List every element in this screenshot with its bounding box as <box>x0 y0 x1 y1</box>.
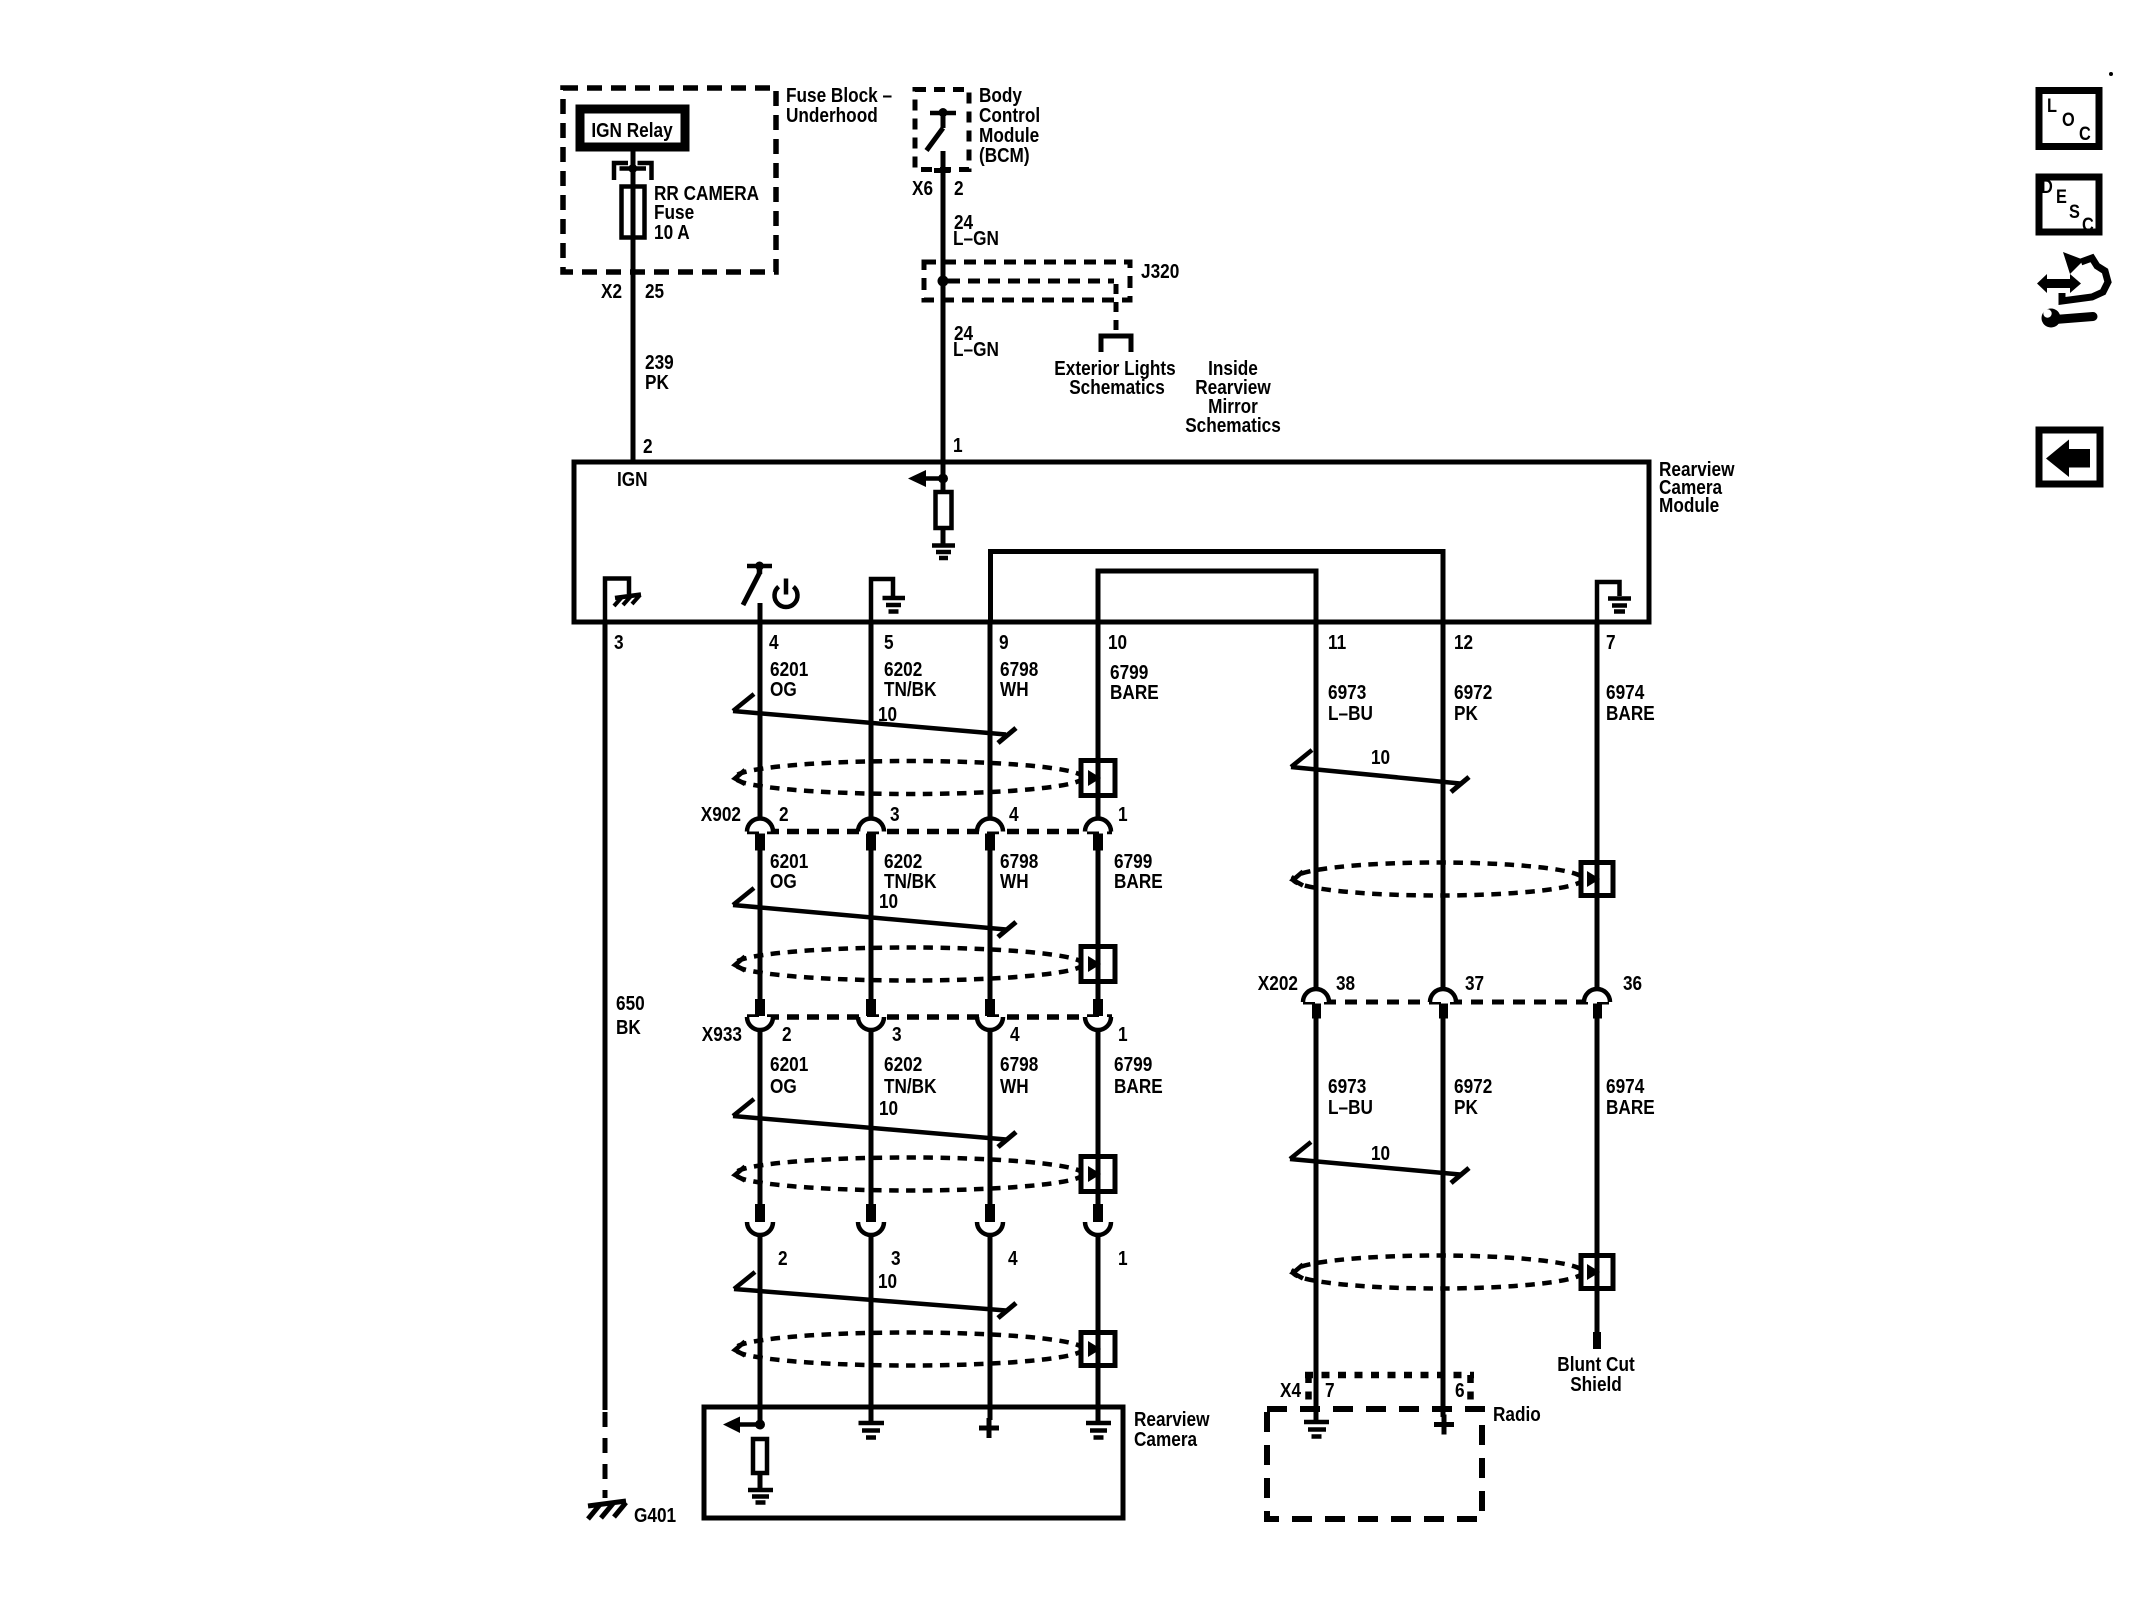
camera connector pin 4 terminal arc <box>977 1222 1003 1235</box>
Rearview Camera Module box U1 <box>574 462 1649 622</box>
svg-text:6798: 6798 <box>1000 659 1038 681</box>
shield termination box A <box>1581 862 1613 896</box>
module pin7 internal ground <box>1597 582 1631 622</box>
camera connector pin 2 stub <box>755 1204 765 1222</box>
svg-text:6202: 6202 <box>884 659 922 681</box>
dashed drop to exterior lights <box>1114 284 1119 332</box>
connector X202 pin 36 stub <box>1593 1004 1602 1019</box>
wire 650 BK from pin3 to G401 <box>603 622 608 1410</box>
svg-text:PK: PK <box>645 372 669 394</box>
wire BCM to module pin 1 <box>941 151 946 462</box>
svg-text:239: 239 <box>645 352 674 374</box>
svg-text:6201: 6201 <box>770 1054 808 1076</box>
ground in camera pin3 <box>859 1423 885 1438</box>
sidebar icon back arrow box <box>2039 430 2100 484</box>
twisted leads marker 3 <box>733 1098 1016 1147</box>
svg-text:BARE: BARE <box>1114 1076 1163 1098</box>
svg-text:WH: WH <box>1000 1076 1029 1098</box>
svg-text:Schematics: Schematics <box>1069 377 1165 399</box>
twisted leads marker 1 <box>733 694 1016 743</box>
svg-text:10: 10 <box>1371 747 1390 769</box>
svg-text:6973: 6973 <box>1328 682 1366 704</box>
svg-text:6799: 6799 <box>1114 851 1152 873</box>
svg-text:D: D <box>2041 177 2053 198</box>
svg-text:TN/BK: TN/BK <box>884 871 937 893</box>
relay K: IGN Relay box <box>580 109 685 147</box>
svg-text:10 A: 10 A <box>654 222 690 244</box>
twisted leads marker B right <box>1290 1142 1469 1183</box>
connector X933 pin 4 terminal arc <box>977 1017 1003 1030</box>
wire 6798 WH pin9 segment1 <box>988 622 993 819</box>
svg-text:7: 7 <box>1606 632 1616 654</box>
BCM dashed box <box>915 90 969 170</box>
svg-text:6799: 6799 <box>1114 1054 1152 1076</box>
power symbol <box>775 579 798 608</box>
wire 6974 BARE segment2 to blunt cut <box>1595 1018 1600 1333</box>
ground in camera pin2 <box>748 1490 773 1503</box>
connector X902 pin 1 stub <box>1093 834 1103 851</box>
svg-text:BARE: BARE <box>1606 703 1655 725</box>
wire 6201 OG segment2 <box>758 850 763 1000</box>
camera pin2 internal arrow <box>723 1417 765 1434</box>
wire 6201 OG segment3 <box>758 1029 763 1204</box>
shield termination box 2 <box>1081 946 1115 982</box>
module internal link pin10 to pin11 <box>1098 571 1316 622</box>
connector X902 pin 2 terminal arc <box>747 819 773 832</box>
svg-text:X2: X2 <box>601 281 622 303</box>
svg-text:Module: Module <box>979 125 1039 147</box>
svg-text:OG: OG <box>770 871 797 893</box>
connector X902 pin 4 terminal arc <box>977 819 1003 832</box>
svg-text:6202: 6202 <box>884 1054 922 1076</box>
svg-text:Module: Module <box>1659 495 1719 517</box>
module pin5 internal ground <box>871 579 905 622</box>
svg-text:37: 37 <box>1465 973 1484 995</box>
svg-text:36: 36 <box>1623 973 1642 995</box>
svg-text:25: 25 <box>645 281 664 303</box>
svg-text:10: 10 <box>1371 1143 1390 1165</box>
connector X902 pin 4 stub <box>985 834 995 851</box>
svg-text:BK: BK <box>616 1017 641 1039</box>
svg-text:O: O <box>2062 110 2075 131</box>
svg-text:Camera: Camera <box>1134 1429 1198 1451</box>
module pin1 internal: arrow, resistor, ground <box>908 462 948 545</box>
svg-text:6974: 6974 <box>1606 682 1645 704</box>
svg-text:E: E <box>2056 187 2067 208</box>
ground G401 <box>588 1501 626 1519</box>
svg-text:6201: 6201 <box>770 659 808 681</box>
svg-text:6973: 6973 <box>1328 1076 1366 1098</box>
svg-text:1: 1 <box>1118 1024 1128 1046</box>
connector X933 pin 1 stub <box>1093 999 1103 1016</box>
wire 6974 BARE pin7 segment1 <box>1595 622 1600 990</box>
module internal link pin9 to pin12 <box>991 552 1444 623</box>
connector X933 pin 2 stub <box>755 999 765 1016</box>
fuse block underhood dashed box <box>563 88 776 272</box>
svg-text:6798: 6798 <box>1000 1054 1038 1076</box>
svg-text:650: 650 <box>616 993 645 1015</box>
svg-text:BARE: BARE <box>1606 1097 1655 1119</box>
resistor R1 in module <box>936 492 952 528</box>
wire 6973 L-BU pin11 segment1 <box>1314 622 1319 990</box>
svg-text:Blunt Cut: Blunt Cut <box>1557 1354 1635 1376</box>
wire 6201 OG segment4 into camera <box>758 1235 763 1425</box>
svg-text:IGN: IGN <box>617 469 648 491</box>
svg-text:G401: G401 <box>634 1505 676 1527</box>
connector X202 pin 38 terminal arc <box>1303 989 1329 1002</box>
svg-text:3: 3 <box>891 1248 901 1270</box>
svg-text:4: 4 <box>1008 1248 1018 1270</box>
svg-text:6798: 6798 <box>1000 851 1038 873</box>
svg-text:BARE: BARE <box>1114 871 1163 893</box>
svg-text:6974: 6974 <box>1606 1076 1645 1098</box>
ground in camera pin1 <box>1086 1423 1111 1438</box>
wire 6973 L-BU segment2 into radio <box>1314 1018 1319 1420</box>
shield termination box 3 <box>1081 1156 1115 1192</box>
connector X902 pin 3 stub <box>866 834 876 851</box>
wire 6799 BARE segment4 into camera <box>1096 1235 1101 1421</box>
svg-text:3: 3 <box>892 1024 902 1046</box>
shield termination box 4 <box>1081 1332 1115 1366</box>
svg-text:2: 2 <box>954 178 964 200</box>
shield ellipse 4 <box>735 1333 1083 1366</box>
camera connector pin 3 stub <box>866 1204 876 1222</box>
wire relay to contact <box>631 147 636 168</box>
twisted leads marker A right <box>1291 747 1469 792</box>
wire 6799 BARE segment3 <box>1096 1029 1101 1204</box>
svg-text:C: C <box>2082 215 2094 236</box>
svg-text:TN/BK: TN/BK <box>884 1076 937 1098</box>
svg-text:3: 3 <box>890 804 900 826</box>
svg-text:1: 1 <box>1118 1248 1128 1270</box>
shield ellipse 3 <box>735 1158 1083 1191</box>
module pin3 internal chassis ground <box>605 579 641 623</box>
connector X902 pin 3 terminal arc <box>858 819 884 832</box>
svg-text:S: S <box>2069 202 2080 223</box>
svg-text:OG: OG <box>770 679 797 701</box>
wire 6202 TN/BK segment2 <box>869 850 874 1000</box>
connector X933 pin 4 stub <box>985 999 995 1016</box>
connector X202 pin 37 stub <box>1439 1004 1448 1019</box>
svg-text:J320: J320 <box>1141 261 1179 283</box>
svg-text:6202: 6202 <box>884 851 922 873</box>
blunt cut shield wire end <box>1593 1332 1601 1349</box>
sidebar icon car with wrench <box>2037 252 2108 328</box>
wire 6201 OG pin4 segment1 <box>758 622 763 819</box>
connector X933 pin 1 terminal arc <box>1085 1017 1111 1030</box>
svg-text:(BCM): (BCM) <box>979 145 1030 167</box>
svg-text:Radio: Radio <box>1493 1404 1541 1426</box>
svg-text:L–GN: L–GN <box>953 339 999 361</box>
sidebar icon DESC box <box>2039 177 2099 236</box>
svg-text:PK: PK <box>1454 703 1478 725</box>
wire 6799 BARE pin10 segment1 <box>1096 622 1101 819</box>
svg-text:10: 10 <box>1108 632 1127 654</box>
svg-text:1: 1 <box>953 435 963 457</box>
svg-text:10: 10 <box>879 1098 898 1120</box>
svg-text:Rearview: Rearview <box>1134 1409 1210 1431</box>
svg-text:X902: X902 <box>701 804 741 826</box>
plus symbol radio pin6 <box>1434 1415 1454 1435</box>
svg-text:BARE: BARE <box>1110 682 1159 704</box>
ground in module at pin1 <box>932 546 955 559</box>
svg-text:OG: OG <box>770 1076 797 1098</box>
connector X933 pin 3 stub <box>866 999 876 1016</box>
svg-text:11: 11 <box>1328 632 1346 654</box>
svg-text:Body: Body <box>979 85 1023 107</box>
bracket to exterior lights schematics <box>1101 336 1131 352</box>
sidebar icon LOC box <box>2039 91 2099 147</box>
svg-text:6972: 6972 <box>1454 1076 1492 1098</box>
svg-text:9: 9 <box>999 632 1009 654</box>
svg-text:6799: 6799 <box>1110 662 1148 684</box>
svg-text:7: 7 <box>1325 1380 1335 1402</box>
shield termination box B <box>1581 1255 1613 1289</box>
wire contact to fuse and down to module pin 2 <box>631 168 636 462</box>
svg-text:PK: PK <box>1454 1097 1478 1119</box>
camera connector pin 3 terminal arc <box>858 1222 884 1235</box>
shield ellipse 1 <box>735 761 1083 794</box>
svg-text:2: 2 <box>778 1248 788 1270</box>
svg-text:2: 2 <box>779 804 789 826</box>
wire 6972 PK pin12 segment1 <box>1441 622 1446 990</box>
svg-text:L–GN: L–GN <box>953 228 999 250</box>
camera connector pin 1 terminal arc <box>1085 1222 1111 1235</box>
svg-text:IGN Relay: IGN Relay <box>591 120 673 142</box>
fuse F: RR CAMERA Fuse 10A <box>622 187 645 238</box>
svg-text:4: 4 <box>1010 1024 1020 1046</box>
connector X4 dotted bracket <box>1305 1375 1474 1406</box>
splice J320 dashed box <box>924 262 1130 300</box>
svg-text:1: 1 <box>1118 804 1128 826</box>
svg-text:10: 10 <box>879 891 898 913</box>
ground in radio pin7 <box>1304 1422 1329 1437</box>
svg-text:X202: X202 <box>1258 973 1298 995</box>
svg-text:4: 4 <box>769 632 779 654</box>
svg-text:WH: WH <box>1000 679 1029 701</box>
svg-text:5: 5 <box>884 632 894 654</box>
svg-text:38: 38 <box>1336 973 1355 995</box>
svg-text:10: 10 <box>878 1271 897 1293</box>
svg-text:X4: X4 <box>1280 1380 1302 1402</box>
wire 6972 PK segment2 into radio <box>1441 1018 1446 1417</box>
tiny dot top right <box>2109 72 2113 76</box>
shield ellipse A right <box>1293 863 1583 896</box>
connector X902 pin 1 terminal arc <box>1085 819 1111 832</box>
wire 6799 BARE segment2 <box>1096 850 1101 1000</box>
svg-text:4: 4 <box>1009 804 1019 826</box>
wire 6202 TN/BK segment3 <box>869 1029 874 1204</box>
camera connector pin 2 terminal arc <box>747 1222 773 1235</box>
svg-text:2: 2 <box>782 1024 792 1046</box>
svg-text:X933: X933 <box>702 1024 742 1046</box>
camera connector pin 1 stub <box>1093 1204 1103 1222</box>
connector X202 pin 36 terminal arc <box>1584 989 1610 1002</box>
twisted leads marker 2 <box>733 888 1016 937</box>
svg-text:Fuse: Fuse <box>654 202 694 224</box>
Radio dashed box <box>1267 1409 1482 1519</box>
relay contact bracket <box>614 163 652 180</box>
svg-text:2: 2 <box>643 436 653 458</box>
wire 6798 WH segment2 <box>988 850 993 1000</box>
shield termination box 1 <box>1081 760 1115 796</box>
connector X902 pin 2 stub <box>755 834 765 851</box>
svg-text:Fuse Block –: Fuse Block – <box>786 85 892 107</box>
svg-text:L–BU: L–BU <box>1328 1097 1373 1119</box>
svg-text:6201: 6201 <box>770 851 808 873</box>
wire 6202 TN/BK pin5 segment1 <box>869 622 874 819</box>
wire 6798 WH segment3 <box>988 1029 993 1204</box>
svg-text:12: 12 <box>1454 632 1473 654</box>
camera connector pin 4 stub <box>985 1204 995 1222</box>
shield ellipse 2 <box>735 948 1083 981</box>
Rearview Camera box <box>704 1407 1123 1518</box>
resistor R2 in camera <box>753 1439 767 1473</box>
svg-text:X6: X6 <box>912 178 933 200</box>
svg-text:Schematics: Schematics <box>1185 415 1281 437</box>
module pin4 internal switch with power symbol <box>743 562 772 623</box>
twisted leads marker 4 <box>734 1271 1016 1318</box>
svg-text:6972: 6972 <box>1454 682 1492 704</box>
svg-text:3: 3 <box>614 632 624 654</box>
svg-text:Underhood: Underhood <box>786 105 878 127</box>
connector X202 pin 38 stub <box>1312 1004 1321 1019</box>
wire 6202 TN/BK segment4 into camera <box>869 1235 874 1421</box>
shield ellipse B right <box>1293 1256 1583 1289</box>
svg-text:C: C <box>2079 124 2091 145</box>
svg-text:TN/BK: TN/BK <box>884 679 937 701</box>
svg-text:WH: WH <box>1000 871 1029 893</box>
wire 6798 WH segment4 into camera <box>988 1235 993 1420</box>
svg-text:6: 6 <box>1455 1380 1465 1402</box>
connector X202 pin 37 terminal arc <box>1430 989 1456 1002</box>
plus symbol camera pin4 <box>979 1418 999 1438</box>
svg-text:L: L <box>2047 96 2057 117</box>
connector X933 pin 3 terminal arc <box>858 1017 884 1030</box>
svg-text:L–BU: L–BU <box>1328 703 1373 725</box>
svg-text:Control: Control <box>979 105 1040 127</box>
BCM internal switch <box>927 108 957 171</box>
connector X933 pin 2 terminal arc <box>747 1017 773 1030</box>
svg-text:Shield: Shield <box>1570 1374 1622 1396</box>
